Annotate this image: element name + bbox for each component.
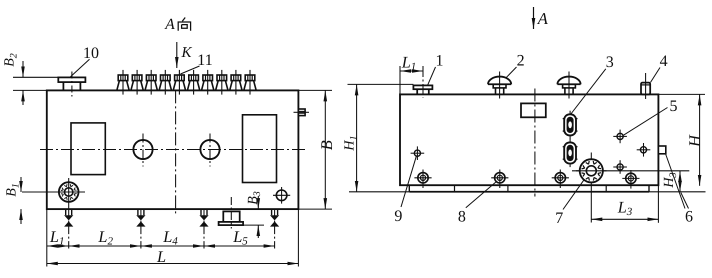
breather cap (second) [557, 72, 580, 99]
label 11 with leader [181, 52, 213, 74]
side window plate [521, 103, 546, 117]
A direction arrow [534, 7, 549, 29]
label 10 with leader [71, 45, 100, 77]
svg-text:11: 11 [197, 52, 212, 69]
svg-text:9: 9 [394, 208, 402, 225]
L3 right extension [657, 186, 659, 223]
left edge extension down [46, 209, 48, 266]
left edge extension up for L1 [399, 66, 401, 94]
H dimension [685, 94, 704, 185]
svg-text:L1: L1 [401, 52, 417, 73]
label 8 with leader [458, 182, 497, 226]
svg-text:A: A [537, 9, 549, 28]
label 4 with leader [651, 53, 668, 82]
svg-text:A: A [164, 16, 175, 33]
K arrow [177, 42, 193, 68]
svg-text:K: K [181, 45, 193, 61]
L1 dimension (top) [400, 52, 423, 73]
svg-text:B: B [317, 140, 336, 150]
drain valve 2 [136, 209, 145, 248]
foundation bolt d [552, 170, 569, 189]
foundation bolt e [622, 170, 639, 189]
L3 dimension [591, 198, 658, 220]
B dimension [317, 90, 336, 209]
H1 dimension [343, 84, 360, 191]
top edge extension for B dimension [298, 89, 332, 91]
right bearing window [243, 115, 277, 183]
svg-text:1: 1 [436, 52, 444, 69]
L2 dimension [69, 227, 141, 248]
B1 dimension [5, 177, 22, 224]
B2 dimension [3, 53, 59, 105]
vertical centerline [175, 90, 177, 214]
right edge extension down [297, 209, 299, 266]
label 5 with leader [624, 98, 678, 135]
svg-text:2: 2 [517, 52, 525, 69]
bottom drain plug flange [219, 197, 244, 229]
plug 4 [641, 73, 650, 99]
drain cock knurled cap (front) [22, 178, 85, 209]
svg-text:H: H [685, 134, 704, 148]
housing body front view [47, 90, 299, 209]
svg-text:3: 3 [606, 54, 614, 71]
small bolt 5 [613, 130, 627, 144]
B3 dimension [244, 191, 265, 238]
top edge extension for H [658, 93, 705, 95]
svg-text:H1: H1 [343, 135, 360, 151]
oil sight gauge upper 3 [563, 111, 578, 139]
svg-text:L5: L5 [232, 227, 248, 248]
cover flange 1 [413, 66, 432, 98]
foundation bolt b [414, 170, 431, 189]
square fitting 6 on right wall [658, 146, 665, 154]
svg-text:L2: L2 [97, 227, 113, 248]
left shaft hole [133, 134, 152, 167]
bottom edge extension for B dimension [298, 208, 332, 210]
label 2 with leader [506, 52, 525, 78]
drain valve 1 [64, 209, 73, 248]
oil filler knurled cap 7 [572, 153, 689, 223]
side plug fitting on right wall [294, 109, 310, 116]
label 3 with leader [571, 54, 614, 115]
left bearing window [71, 123, 105, 175]
vertical centerline of side view [534, 89, 536, 197]
H1 bottom extension [349, 191, 409, 193]
L5 dimension [204, 227, 275, 248]
svg-text:5: 5 [670, 98, 678, 115]
label 7 with leader [555, 180, 584, 227]
svg-text:7: 7 [555, 210, 563, 227]
svg-text:L4: L4 [162, 227, 178, 248]
bolt row item 11 (x10) [117, 70, 256, 95]
drain valve 4 [270, 209, 279, 248]
svg-text:L: L [156, 247, 166, 266]
svg-text:B2: B2 [3, 53, 20, 67]
small bolt 9 [411, 146, 425, 160]
label 1 with leader [428, 52, 444, 85]
H3 dimension [662, 171, 680, 192]
svg-text:4: 4 [660, 53, 668, 70]
svg-text:10: 10 [83, 45, 99, 62]
svg-text:H3: H3 [662, 172, 679, 188]
inspection cover flange 10 [58, 72, 85, 97]
small bolt h [637, 143, 651, 157]
L1 dimension [47, 227, 69, 248]
label 6 with two leaders [666, 155, 693, 226]
oil sight gauge lower [563, 139, 578, 167]
small bolt f [613, 160, 627, 174]
view label A direction [164, 16, 190, 33]
svg-text:6: 6 [685, 209, 693, 226]
foundation bolt 8 [491, 170, 508, 189]
svg-text:L1: L1 [49, 227, 65, 248]
H1 top extension [348, 83, 414, 85]
small oil hole bottom right [273, 187, 290, 204]
base plate [409, 185, 649, 192]
horizontal centerline [40, 149, 305, 151]
housing body side view [400, 94, 658, 185]
svg-text:8: 8 [458, 209, 466, 226]
right shaft hole [200, 134, 219, 167]
base bottom extension right for H [649, 191, 706, 193]
svg-text:B1: B1 [5, 183, 22, 197]
L4 dimension [141, 227, 204, 248]
breather cap 2 [488, 72, 511, 99]
drain valve 3 [199, 209, 208, 248]
label 9 with leader [394, 156, 416, 225]
L overall dimension [47, 247, 299, 266]
svg-text:L3: L3 [617, 198, 633, 219]
